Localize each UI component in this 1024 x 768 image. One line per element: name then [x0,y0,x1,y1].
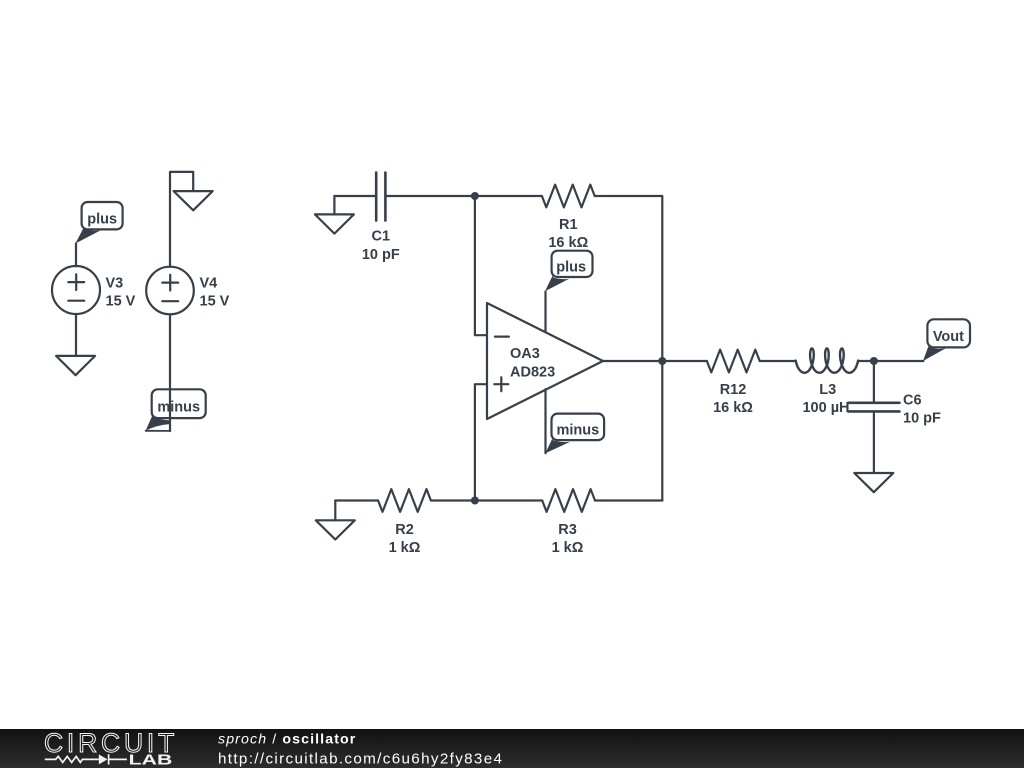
svg-text:OA3: OA3 [510,346,540,362]
flag minus (op-amp V-) [545,414,604,454]
flag plus (V3 top) [75,202,122,244]
svg-text:10 pF: 10 pF [903,410,941,426]
wire R2 to R3 [431,499,542,501]
wire R1 right + right bus [595,196,663,501]
svg-text:15 V: 15 V [106,293,136,309]
resistor R12 [707,350,760,417]
wire V3 bottom lead [75,314,77,356]
wire C6 bottom lead [873,412,875,473]
svg-text:1 kΩ: 1 kΩ [552,540,584,556]
voltage source V3 [52,266,136,314]
resistor R2 [378,489,431,556]
flag plus (op-amp V+) [545,251,593,292]
wire C1 left [334,195,376,197]
ground (C1 left) [315,196,354,234]
capacitor C1 [362,173,400,263]
svg-text:minus: minus [157,399,200,415]
ground (V4 top) [174,191,213,210]
svg-text:R1: R1 [559,217,578,233]
svg-text:15 V: 15 V [200,293,230,309]
ground (V3) [56,356,95,375]
wire op-amp V- pin [544,389,546,453]
wire op-amp V+ pin [544,292,546,332]
wire V4 top to ground [170,172,193,267]
logo resistor-diode line [45,754,127,764]
node B junction dot [471,497,479,505]
voltage source V4 [146,267,229,315]
svg-text:plus: plus [556,259,586,275]
svg-text:plus: plus [87,211,117,227]
svg-text:C1: C1 [372,229,391,245]
svg-text:sproch / oscillator: sproch / oscillator [218,731,356,747]
svg-text:100 µH: 100 µH [802,400,849,416]
svg-text:R12: R12 [720,382,747,398]
flag minus (V4 bottom) [146,389,206,431]
node O junction dot [658,357,666,365]
svg-text:R2: R2 [395,522,414,538]
svg-text:C6: C6 [903,392,922,408]
svg-text:R3: R3 [558,522,577,538]
wire L3 to Vout [858,360,923,362]
ground (C6) [854,473,893,492]
svg-text:1 kΩ: 1 kΩ [389,540,421,556]
svg-text:10 pF: 10 pF [362,247,400,263]
resistor R1 [542,185,595,251]
wire C1 to R1 [385,195,542,197]
resistor R3 [542,489,595,556]
wire left bus lower (non-inverting input to node B) [475,384,487,500]
node C junction dot [870,357,878,365]
wire V4 bottom lead [169,314,171,431]
wire R2 left [335,499,378,501]
inductor L3 [796,348,858,416]
wire R12 to L3 [760,360,796,362]
svg-text:minus: minus [556,423,599,439]
svg-text:AD823: AD823 [510,364,555,380]
capacitor C6 [848,392,941,426]
svg-text:LAB: LAB [129,751,173,768]
svg-text:16 kΩ: 16 kΩ [713,400,753,416]
wire C6 top lead [873,361,875,403]
ground (R2 left) [316,501,355,540]
svg-text:L3: L3 [819,382,836,398]
svg-text:Vout: Vout [933,329,964,345]
svg-text:http://circuitlab.com/c6u6hy2f: http://circuitlab.com/c6u6hy2fy83e4 [218,750,503,767]
flag Vout [923,319,970,361]
node A junction dot [471,192,479,200]
svg-text:16 kΩ: 16 kΩ [548,235,588,251]
wire op-amp output [603,360,707,362]
wire left bus upper (node A to inverting input) [475,196,487,335]
op-amp OA3 [487,303,603,419]
svg-text:V4: V4 [200,275,218,291]
wire V3 plus lead [75,244,77,267]
svg-text:V3: V3 [106,275,124,291]
wire R3 right [595,499,662,501]
